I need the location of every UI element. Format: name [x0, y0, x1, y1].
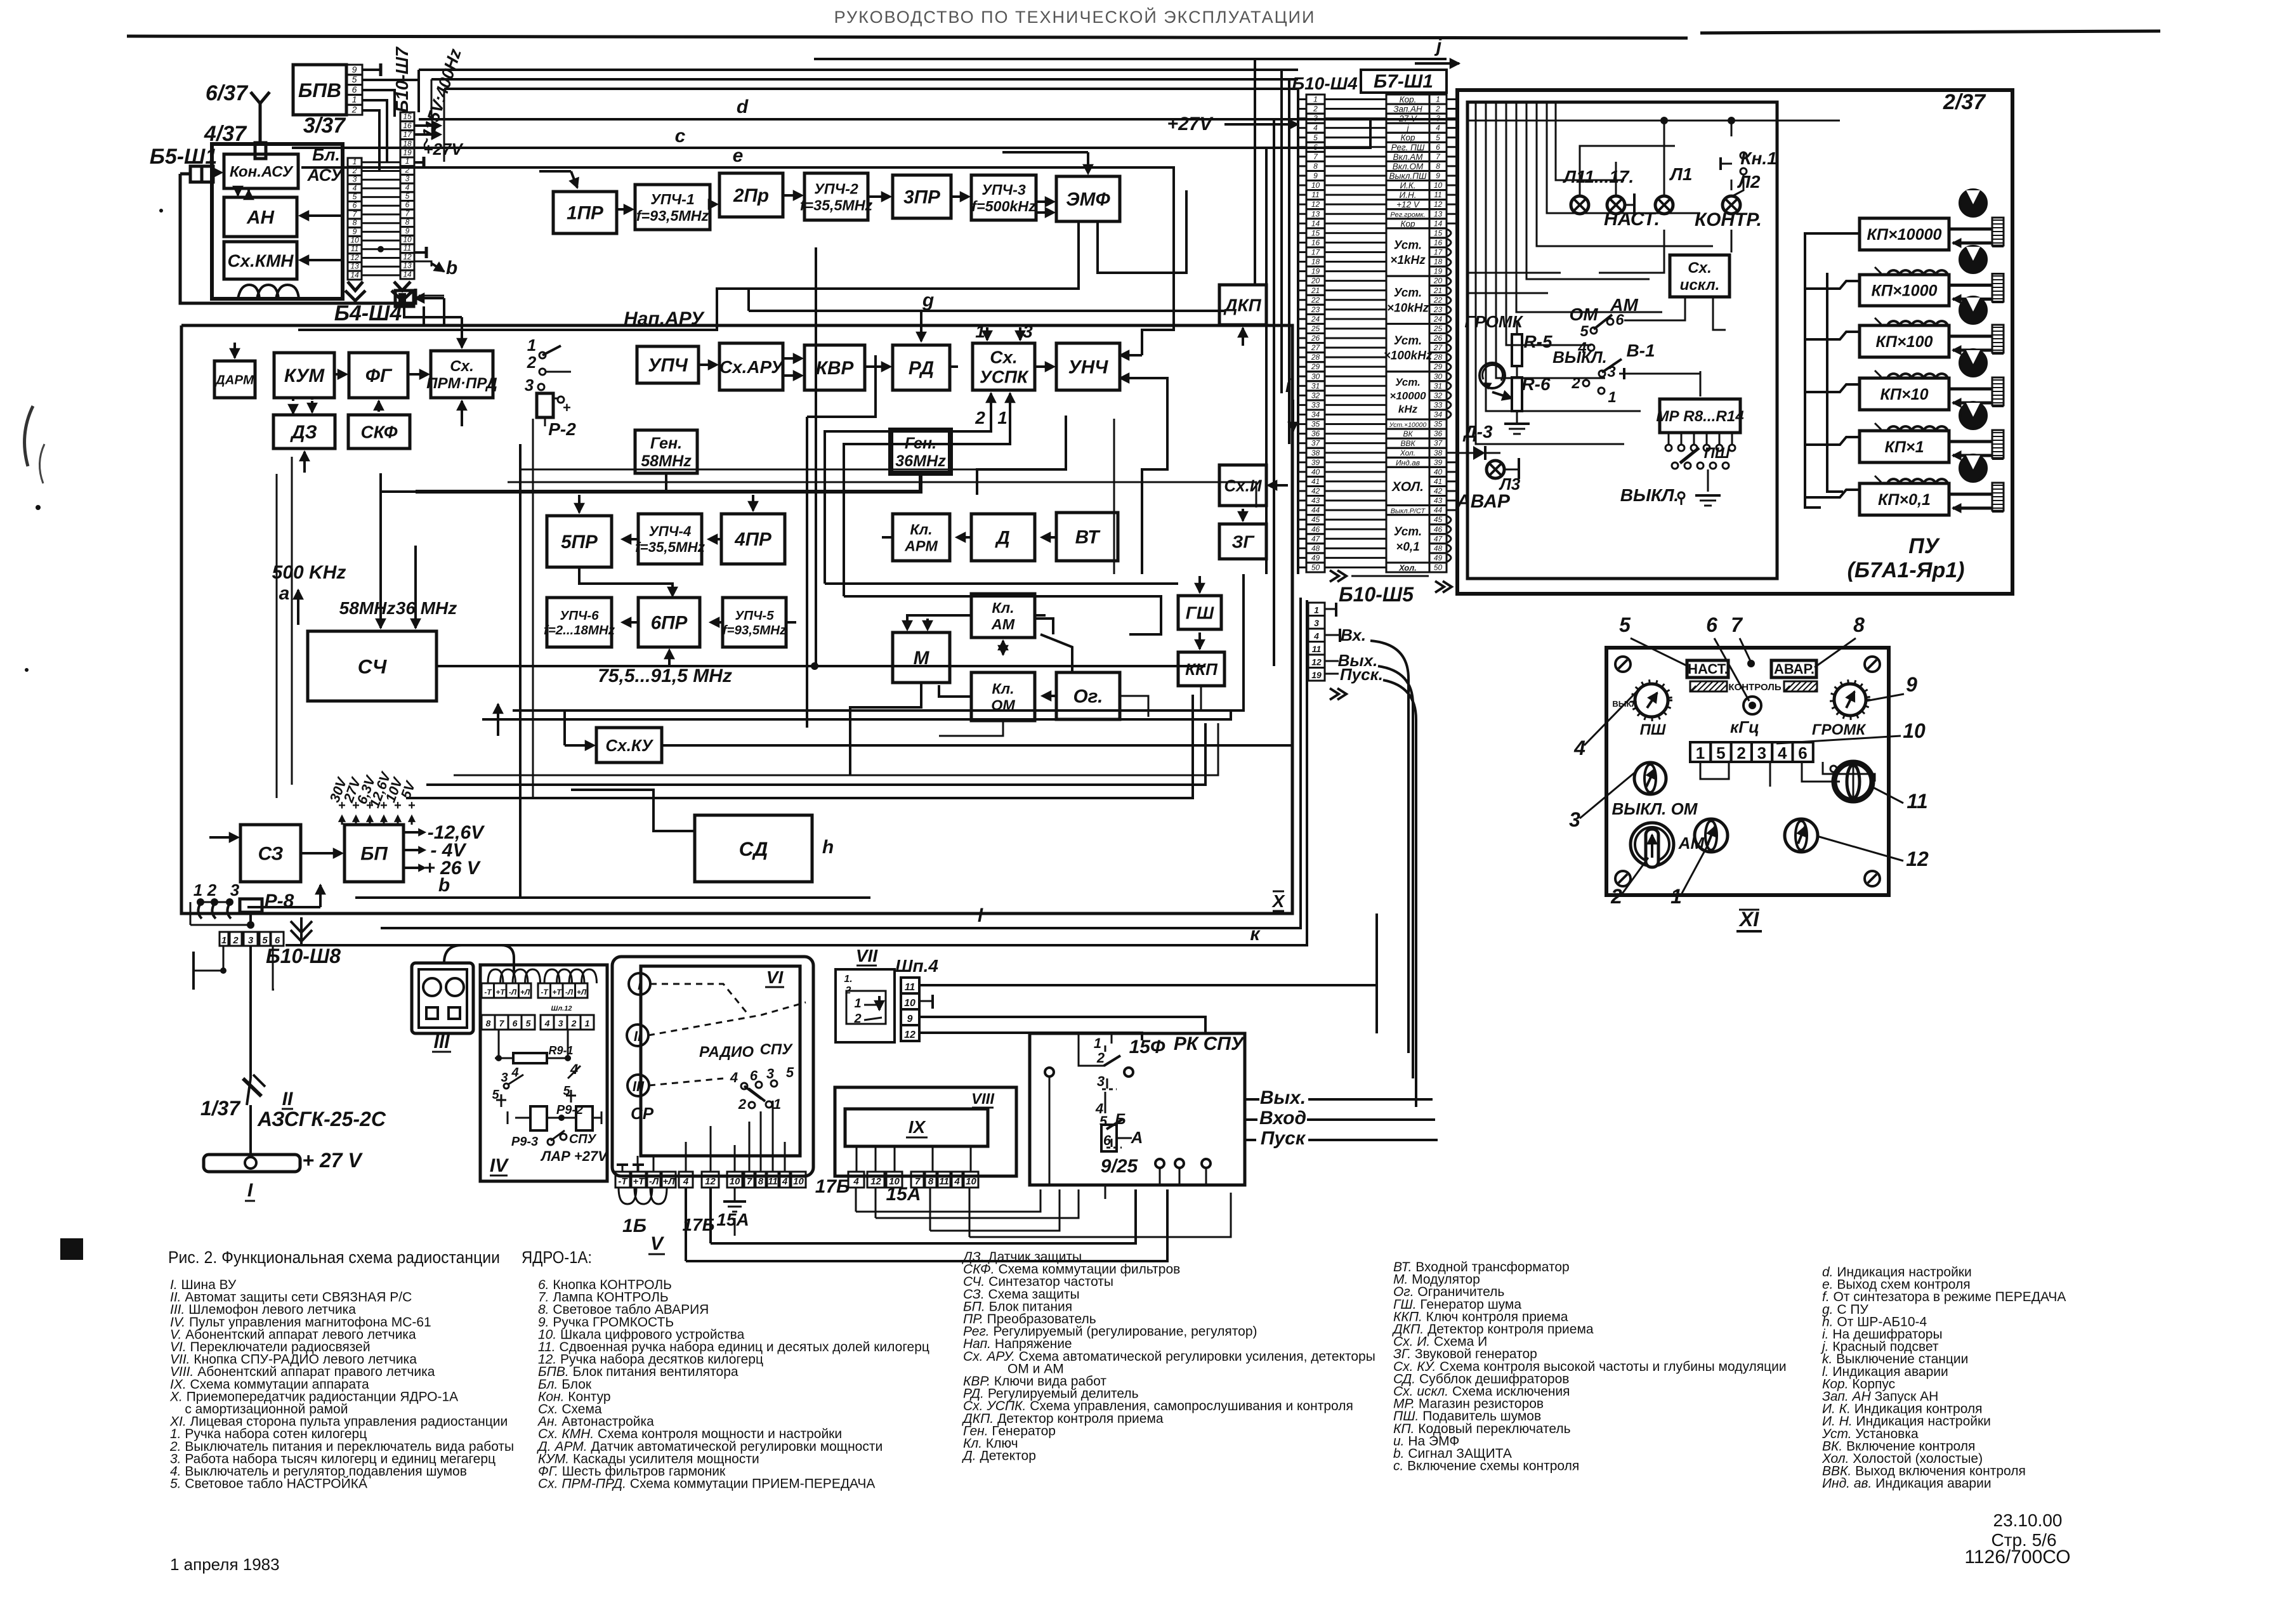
svg-text:d: d	[737, 96, 749, 117]
block 6ПР	[638, 598, 700, 647]
svg-text:4: 4	[683, 1176, 689, 1187]
svg-text:3: 3	[1097, 1073, 1105, 1089]
svg-text:1: 1	[353, 157, 357, 166]
svg-text:14: 14	[1434, 219, 1443, 228]
svg-text:6: 6	[353, 201, 357, 210]
svg-text:ГРОМК: ГРОМК	[1464, 312, 1523, 331]
arrows into ЭМФ	[1036, 200, 1051, 203]
strip Шп.4	[901, 978, 919, 993]
svg-text:b: b	[446, 258, 457, 278]
КОНТРОЛЬ hatched bars	[1690, 681, 1727, 691]
arrow into Сх.И right	[1271, 484, 1288, 487]
svg-text:КУМ: КУМ	[284, 365, 325, 386]
svg-text:46: 46	[1434, 525, 1443, 534]
svg-text:6: 6	[513, 1018, 518, 1028]
svg-text:4: 4	[954, 1176, 960, 1187]
bus line d	[419, 118, 1457, 121]
svg-text:12: 12	[1311, 200, 1320, 209]
wires IX to strips	[856, 1146, 858, 1172]
svg-text:35: 35	[1434, 420, 1443, 429]
arrow into 5ПР top	[578, 495, 581, 513]
svg-text:Уст.: Уст.	[1395, 376, 1421, 388]
svg-text:УПЧ-2: УПЧ-2	[814, 180, 858, 197]
row2 arrows	[699, 363, 714, 366]
svg-text:1.: 1.	[844, 974, 852, 985]
svg-text:2: 2	[527, 353, 537, 372]
wire ККП bottom	[1201, 686, 1231, 710]
relay Р9-2	[530, 1106, 547, 1130]
svg-text:ГШ: ГШ	[1186, 603, 1214, 623]
block КП×1	[1860, 431, 1949, 462]
inner box IX	[845, 1109, 988, 1146]
svg-text:42: 42	[1311, 487, 1320, 495]
svg-text:Вых.: Вых.	[1260, 1087, 1306, 1108]
svg-text:АВАР: АВАР	[1456, 491, 1511, 512]
svg-text:8: 8	[758, 1176, 764, 1187]
svg-text:6: 6	[405, 200, 410, 209]
svg-text:3: 3	[766, 1066, 774, 1082]
knob of КП×1	[1960, 402, 1986, 429]
arrow into Кон.АСУ from connector Б5-Ш1	[212, 171, 219, 174]
svg-text:21: 21	[1311, 286, 1320, 295]
block Сх.АРУ	[719, 343, 783, 390]
wires панель internal	[1561, 209, 1650, 457]
svg-text:4: 4	[730, 1070, 738, 1085]
svg-text:1: 1	[1696, 743, 1705, 763]
block ЗГ	[1219, 524, 1266, 559]
horizontal weave y740	[520, 469, 977, 471]
svg-text:50: 50	[1311, 563, 1320, 572]
strip 4 12 10 under VIII	[848, 1172, 864, 1188]
svg-text:Б10-Ш8: Б10-Ш8	[266, 945, 341, 967]
svg-text:11: 11	[768, 1176, 778, 1187]
knob of КП×10	[1960, 350, 1986, 376]
panel IV tape recorder	[480, 965, 607, 1181]
Пуск label	[1325, 673, 1339, 675]
arrow into 4ПР top	[752, 495, 754, 511]
svg-text:44: 44	[1311, 506, 1320, 514]
cable loops under Сх.КМН	[238, 285, 259, 299]
knob 3	[1634, 763, 1666, 794]
svg-text:КП×0,1: КП×0,1	[1878, 491, 1931, 509]
svg-text:48: 48	[1311, 544, 1320, 553]
svg-text:45: 45	[1434, 515, 1443, 524]
svg-text:10: 10	[904, 998, 916, 1009]
svg-text:СКФ: СКФ	[360, 422, 397, 442]
svg-text:3: 3	[558, 1018, 563, 1028]
panel VIII	[835, 1087, 1016, 1176]
block ЭМФ	[1056, 176, 1120, 221]
block РД	[893, 345, 950, 390]
svg-text:58МHz: 58МHz	[339, 598, 396, 618]
svg-text:АВАР.: АВАР.	[1774, 661, 1815, 677]
svg-text:Инд.ав: Инд.ав	[1396, 458, 1420, 467]
svg-text:АЗСГК-25-2С: АЗСГК-25-2С	[257, 1108, 386, 1130]
svg-text:И.Н.: И.Н.	[1400, 190, 1417, 200]
hooks right of Б7-Ш1	[1447, 229, 1451, 237]
arrows row3 leftward	[625, 538, 638, 540]
svg-text:1: 1	[1670, 885, 1682, 908]
shaft of КП×0,1	[1949, 493, 1992, 496]
svg-text:15Ф: 15Ф	[1129, 1037, 1165, 1058]
terminator at Шп.4 pin10	[919, 1000, 933, 1002]
wires БПВ pins to Б10-Ш7	[362, 70, 419, 80]
svg-text:X: X	[1271, 891, 1286, 911]
svg-text:f=2...18MHz: f=2...18MHz	[544, 623, 615, 638]
svg-text:2/37: 2/37	[1943, 90, 1986, 114]
svg-text:49: 49	[1434, 553, 1443, 562]
svg-text:14: 14	[1311, 219, 1320, 228]
svg-text:УСПК: УСПК	[980, 367, 1029, 387]
svg-text:7: 7	[499, 1018, 505, 1028]
svg-text:I: I	[247, 1180, 253, 1201]
svg-text:c: c	[675, 126, 686, 147]
bus line top4	[444, 88, 1298, 90]
svg-text:ХI: ХI	[1738, 908, 1759, 931]
svg-text:2: 2	[1435, 105, 1440, 114]
svg-text:3: 3	[1314, 618, 1319, 628]
svg-text:4ПР: 4ПР	[734, 529, 771, 550]
svg-text:15: 15	[1311, 228, 1320, 237]
svg-text:Б10-Ш7: Б10-Ш7	[392, 46, 412, 113]
svg-text:c. Включение схемы контроля: c. Включение схемы контроля	[1393, 1459, 1579, 1474]
svg-text:27: 27	[1311, 343, 1321, 352]
block Кон.АСУ	[224, 154, 298, 188]
svg-text:Кл.: Кл.	[992, 680, 1014, 697]
wires between Б10-Ш4 and Б7-Ш1	[1325, 98, 1386, 100]
svg-text:ЭМФ: ЭМФ	[1066, 189, 1110, 210]
svg-text:6: 6	[1798, 743, 1807, 763]
svg-text:Выкл.ПШ: Выкл.ПШ	[1389, 171, 1427, 181]
svg-text:Б10-Ш4: Б10-Ш4	[1292, 74, 1358, 93]
svg-text:1ПР: 1ПР	[567, 203, 603, 224]
knob 11 bold	[1834, 763, 1872, 801]
button КОНТРОЛЬ	[1743, 697, 1761, 714]
wire Кл.ОМ bottom area	[939, 721, 1003, 736]
svg-text:26: 26	[1311, 334, 1320, 343]
knob ГРОМК with scale	[1834, 684, 1866, 716]
ground under cell 10	[734, 1188, 736, 1202]
wire to ДКП bottom	[876, 346, 1243, 355]
numbered strip in IV	[482, 1015, 495, 1030]
svg-text:ЯДРО-1А:: ЯДРО-1А:	[522, 1248, 592, 1267]
dashed links to indicators	[650, 984, 749, 1015]
terminator row 1-3 Б10-Ш5	[1325, 608, 1336, 610]
svg-text:8: 8	[928, 1176, 934, 1187]
svg-text:ПРМ·ПРД: ПРМ·ПРД	[426, 375, 497, 392]
arrow into ЭМФ top	[1087, 152, 1089, 170]
arrow Ог to Кл.АМ	[1040, 634, 1072, 672]
wires III to IV	[444, 945, 514, 977]
svg-text:f=93,5MHz: f=93,5MHz	[723, 623, 787, 638]
svg-text:VIII: VIII	[971, 1090, 995, 1108]
svg-text:к: к	[1250, 924, 1261, 945]
block УПЧ-4	[638, 514, 702, 564]
wires РК СПУ to bottom	[1049, 1077, 1051, 1185]
svg-text:21: 21	[1433, 286, 1442, 295]
svg-text:8: 8	[1853, 613, 1865, 636]
svg-text:-Л: -Л	[565, 988, 574, 997]
indicator III	[627, 1075, 649, 1096]
svg-text:СПУ: СПУ	[760, 1041, 794, 1058]
block Ог.	[1056, 672, 1120, 719]
shaft of КП×10000	[1949, 228, 1992, 231]
block 5ПР	[547, 516, 612, 567]
svg-text:28: 28	[1311, 353, 1320, 362]
svg-text:КОНТР.: КОНТР.	[1695, 209, 1762, 230]
svg-text:СЗ: СЗ	[258, 844, 284, 865]
svg-text:АМ: АМ	[991, 616, 1015, 632]
stub wires rows left of Б10-Ш4	[1297, 98, 1306, 100]
svg-text:30: 30	[1311, 372, 1320, 381]
arrow into СЗ	[209, 836, 235, 839]
svg-text:БПВ: БПВ	[298, 79, 341, 101]
РК СПУ interior verticals	[1079, 1033, 1105, 1066]
wire l long	[381, 598, 1301, 928]
relay box А	[1101, 1125, 1117, 1151]
svg-text:-Т: -Т	[618, 1176, 628, 1187]
svg-text:1: 1	[1314, 605, 1319, 615]
svg-text:Кон.АСУ: Кон.АСУ	[230, 164, 294, 181]
svg-text:2: 2	[1736, 743, 1745, 763]
contacts under 1 2 3	[197, 898, 204, 906]
svg-text:АМ: АМ	[1610, 295, 1638, 315]
svg-text:ФГ: ФГ	[365, 365, 393, 386]
СЧ output right	[436, 665, 1205, 667]
svg-text:3/37: 3/37	[303, 114, 346, 138]
svg-text:КП×10: КП×10	[1880, 386, 1928, 403]
block ВТ	[1056, 513, 1118, 561]
svg-text:35: 35	[1311, 420, 1320, 429]
svg-text:×0,1: ×0,1	[1396, 540, 1420, 554]
svg-text:9: 9	[352, 64, 357, 74]
svg-text:1/37: 1/37	[200, 1097, 241, 1120]
arrow into ГШ top	[1198, 576, 1201, 593]
svg-text:Л1: Л1	[1669, 164, 1693, 184]
wires Б4-Ш4 down into X frame	[423, 306, 425, 325]
block 4ПР	[721, 514, 785, 564]
svg-text:9: 9	[907, 1014, 913, 1025]
svg-text:9: 9	[353, 227, 357, 236]
svg-text:5. Световое табло НАСТРОЙКА: 5. Световое табло НАСТРОЙКА	[170, 1476, 367, 1491]
svg-text:28: 28	[1433, 353, 1443, 362]
svg-text:Сх.АРУ: Сх.АРУ	[719, 357, 784, 377]
svg-text:31: 31	[1311, 381, 1320, 390]
svg-text:39: 39	[1434, 458, 1443, 467]
svg-text:Сх.: Сх.	[1688, 259, 1712, 277]
arrow into Сх.КМН from right	[305, 259, 343, 261]
wires long bottom runs	[686, 1189, 1167, 1261]
svg-text:7: 7	[1731, 613, 1743, 636]
screw	[1615, 871, 1631, 886]
scan blob left margin	[60, 1238, 83, 1260]
relay Р-2	[537, 393, 553, 417]
resistor magazine contacts	[1668, 433, 1670, 444]
strip 7 8 11 4 10 under VIII	[911, 1172, 924, 1188]
strip -Т+Т-Л+Л in IV	[482, 983, 494, 998]
svg-text:16: 16	[403, 121, 412, 130]
svg-text:ПШ: ПШ	[1704, 445, 1730, 462]
block 3ПР	[893, 175, 951, 218]
svg-text:Л2: Л2	[1737, 172, 1761, 192]
arrows Кон.АСУ - АН	[237, 190, 239, 195]
svg-text:ХОЛ.: ХОЛ.	[1391, 480, 1424, 494]
svg-text:32: 32	[1434, 391, 1443, 400]
svg-text:9/25: 9/25	[1101, 1156, 1139, 1177]
arrow into Кл.АМ right	[1035, 614, 1046, 617]
svg-text:УПЧ-6: УПЧ-6	[560, 608, 599, 623]
svg-text:12: 12	[350, 253, 359, 262]
svg-text:ЛАР +27V: ЛАР +27V	[540, 1148, 608, 1164]
svg-text:Кор: Кор	[1401, 219, 1415, 228]
svg-text:СПУ: СПУ	[569, 1132, 597, 1146]
svg-text:VI: VI	[766, 967, 784, 987]
svg-text:8: 8	[1313, 162, 1318, 171]
svg-text:2: 2	[1610, 885, 1622, 908]
svg-text:III: III	[633, 1078, 645, 1094]
shaft of КП×1000	[1949, 284, 1992, 287]
svg-text:23: 23	[1433, 305, 1443, 314]
svg-text:IV: IV	[490, 1155, 509, 1176]
arrows to 115V at rows 16-17	[414, 124, 438, 127]
svg-text:37: 37	[1434, 439, 1443, 448]
svg-text:КП×100: КП×100	[1875, 333, 1933, 351]
svg-text:3: 3	[1313, 114, 1318, 123]
svg-text:37: 37	[1311, 439, 1321, 448]
svg-text:41: 41	[1311, 477, 1320, 486]
svg-text:ВТ: ВТ	[1075, 527, 1101, 548]
svg-text:Инд. ав. Индикация аварии: Инд. ав. Индикация аварии	[1822, 1476, 1992, 1491]
arrow into ДКП bottom	[1242, 328, 1244, 346]
block КП×10000	[1860, 218, 1949, 250]
svg-text:НАСТ.: НАСТ.	[1688, 661, 1728, 677]
svg-text:17: 17	[1434, 248, 1443, 257]
svg-text:УПЧ: УПЧ	[648, 355, 688, 376]
block УНЧ	[1056, 343, 1120, 390]
strip Б7-Ш1 labels	[1386, 95, 1429, 104]
screw	[1865, 871, 1880, 886]
small hole 7	[1747, 660, 1755, 667]
svg-text:44: 44	[1434, 506, 1443, 514]
svg-text:2: 2	[232, 935, 239, 946]
wires МР to switch	[1700, 371, 1702, 396]
svg-text:17: 17	[403, 130, 412, 139]
svg-text:Л11...17.: Л11...17.	[1563, 167, 1634, 187]
svg-text:(Б7А1-Яр1): (Б7А1-Яр1)	[1848, 558, 1965, 582]
svg-text:-Л: -Л	[649, 1176, 659, 1187]
svg-text:И.К.: И.К.	[1400, 181, 1415, 190]
svg-text:R-5: R-5	[1523, 332, 1552, 351]
svg-text:10: 10	[1903, 719, 1926, 742]
block ГШ	[1178, 596, 1221, 629]
svg-text:II: II	[282, 1089, 293, 1110]
knob of КП×100	[1960, 297, 1986, 324]
svg-text:3: 3	[248, 935, 254, 946]
svg-text:11: 11	[939, 1176, 949, 1187]
svg-text:i: i	[1285, 376, 1291, 396]
horizontal weave y925	[844, 596, 1161, 634]
bottom contact circles	[1155, 1159, 1164, 1168]
svg-text:24: 24	[1311, 315, 1320, 324]
big switch knob 2	[1631, 823, 1674, 866]
svg-text:2: 2	[1571, 375, 1580, 392]
svg-text:22: 22	[1311, 296, 1320, 304]
svg-text:12: 12	[1434, 200, 1443, 209]
svg-text:ВЫКЛ.: ВЫКЛ.	[1552, 348, 1607, 367]
svg-text:Сх.КМН: Сх.КМН	[228, 251, 294, 271]
svg-text:19: 19	[1311, 267, 1320, 276]
connector square Б4-Ш4	[395, 291, 414, 306]
connector pins of БПВ	[346, 65, 362, 75]
svg-text:ЗГ: ЗГ	[1231, 532, 1255, 552]
arrow СЗ to БП	[301, 852, 339, 855]
shaft of КП×1	[1949, 440, 1992, 443]
svg-text:УПЧ-3: УПЧ-3	[981, 181, 1026, 198]
ground under R-6	[1504, 422, 1530, 425]
svg-text:УПЧ-5: УПЧ-5	[735, 608, 774, 623]
svg-text:II: II	[634, 1028, 642, 1044]
svg-text:I: I	[638, 977, 642, 993]
svg-text:Сх. ПРМ-ПРД. Схема коммутации: Сх. ПРМ-ПРД. Схема коммутации ПРИЕМ-ПЕРЕ…	[538, 1477, 875, 1491]
resistor R-5	[1512, 334, 1522, 366]
svg-text:ГРОМК: ГРОМК	[1812, 721, 1867, 738]
wire b out of Б10-Ш7 row 12	[414, 251, 426, 254]
svg-text:Б: Б	[1115, 1111, 1126, 1128]
block Кл.ОМ	[971, 672, 1035, 721]
svg-text:36: 36	[1311, 429, 1320, 438]
svg-text:4: 4	[544, 1018, 550, 1028]
wire Сх.УСПК bottom nets	[825, 411, 991, 584]
svg-text:1: 1	[1608, 389, 1616, 406]
svg-text:СД: СД	[739, 837, 768, 860]
svg-text:9: 9	[1313, 171, 1318, 180]
svg-text:ПШ: ПШ	[1640, 721, 1666, 738]
svg-text:-Т: -Т	[541, 988, 549, 997]
svg-text:Шл.12: Шл.12	[551, 1005, 572, 1012]
svg-text:19: 19	[403, 148, 412, 157]
bus line top1	[814, 58, 1447, 60]
knob 12	[1785, 819, 1818, 852]
svg-text:кГц: кГц	[1730, 717, 1759, 737]
block БП	[345, 825, 404, 882]
svg-text:СЧ: СЧ	[358, 655, 387, 678]
svg-text:1Б: 1Б	[622, 1215, 646, 1236]
pin strip Б10-Ш7 rows 15-19 and 1-14	[400, 112, 414, 121]
svg-text:9: 9	[405, 226, 410, 235]
svg-text:17: 17	[1311, 248, 1321, 257]
svg-text:Пуск.: Пуск.	[1340, 665, 1383, 684]
arrow СЧ to 6ПР	[668, 652, 671, 666]
arrow Сх.И to ЗГ	[1242, 509, 1244, 521]
svg-text:6: 6	[750, 1068, 758, 1084]
svg-text:+Т: +Т	[552, 988, 562, 997]
svg-text:6: 6	[1706, 613, 1717, 636]
svg-text:×10000: ×10000	[1389, 390, 1426, 402]
resistor R9-1	[513, 1053, 547, 1063]
svg-text:2: 2	[207, 881, 217, 900]
svg-text:В-1: В-1	[1626, 341, 1655, 360]
svg-text:4: 4	[1313, 124, 1318, 133]
svg-text:×1kHz: ×1kHz	[1390, 254, 1426, 267]
svg-text:3: 3	[525, 376, 534, 395]
svg-text:1: 1	[773, 1096, 781, 1112]
wire ЭМФ down 1	[298, 221, 1079, 330]
svg-text:16: 16	[1311, 238, 1320, 247]
svg-text:6: 6	[352, 84, 357, 95]
knob ПШ with scale	[1635, 684, 1668, 717]
block СД	[695, 815, 812, 882]
arrows into СЧ top	[379, 584, 382, 628]
